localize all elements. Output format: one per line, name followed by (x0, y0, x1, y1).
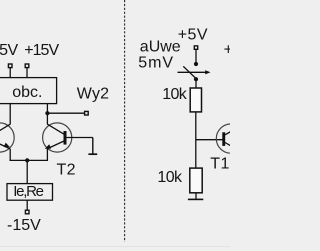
svg-text:+5V: +5V (0, 42, 18, 59)
svg-text:T1: T1 (210, 155, 229, 172)
svg-text:10k: 10k (157, 169, 183, 186)
svg-text:-15V: -15V (7, 217, 41, 234)
svg-text:obc.: obc. (12, 84, 42, 101)
svg-text:Ie,Re: Ie,Re (13, 183, 43, 200)
svg-text:+1: +1 (224, 41, 230, 58)
svg-text:aUwe: aUwe (140, 39, 181, 56)
svg-text:+5V: +5V (178, 27, 208, 44)
svg-text:5mV: 5mV (138, 55, 174, 72)
svg-text:10k: 10k (162, 86, 188, 103)
svg-text:+15V: +15V (24, 42, 59, 59)
svg-text:Wy2: Wy2 (77, 86, 109, 103)
svg-text:T2: T2 (57, 162, 76, 179)
